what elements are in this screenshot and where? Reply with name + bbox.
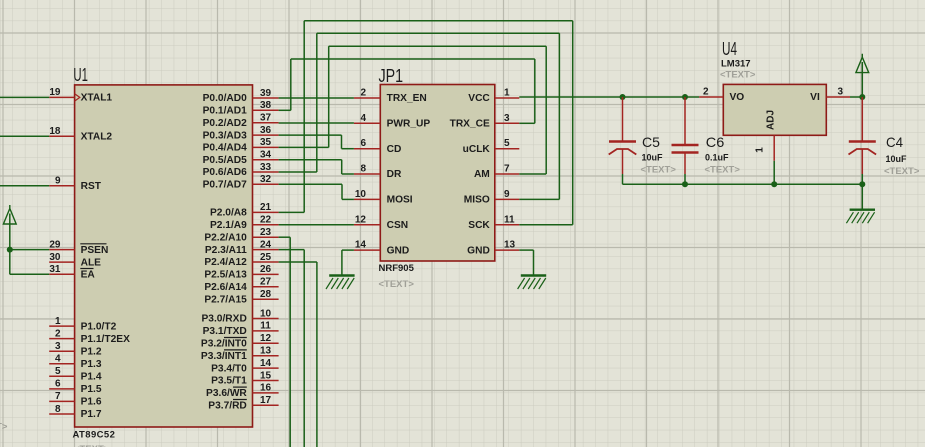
wire GND13 drop	[533, 250, 535, 275]
wire C4 junction to ground	[861, 184, 863, 209]
JP1 pin 3 TRX_CE stub	[495, 122, 520, 124]
svg-text:10uF: 10uF	[642, 153, 664, 163]
svg-text:ADJ: ADJ	[766, 110, 777, 130]
U1 pin 6 P1.5 stub	[49, 388, 74, 390]
wire P0.6 run	[279, 171, 317, 173]
svg-text:5: 5	[55, 366, 61, 377]
svg-text:4: 4	[360, 113, 366, 124]
svg-text:C6: C6	[706, 134, 725, 150]
U1 pin 37 P0.2/AD2 stub	[253, 122, 279, 124]
U1 PSEN overline	[80, 243, 106, 245]
svg-text:37: 37	[260, 113, 272, 124]
wire P0.3 drop to CD	[341, 135, 343, 149]
svg-text:U1: U1	[73, 65, 88, 85]
JP1 pin 7 AM stub	[495, 173, 520, 175]
svg-text:JP1: JP1	[379, 66, 404, 86]
wire P2.1 to CSN	[279, 224, 354, 226]
svg-text:<TEXT>: <TEXT>	[0, 422, 8, 433]
wire P0.7 run	[279, 183, 342, 185]
wire P2.0 riser	[303, 21, 305, 213]
wire P2.4 drop	[316, 262, 318, 447]
U4 pin 1 ADJ stub	[773, 135, 775, 161]
wire P0.2 to PWR_UP	[279, 122, 354, 124]
svg-text:11: 11	[260, 321, 271, 332]
svg-text:5: 5	[504, 138, 510, 149]
U1 pin 11 P3.1/TXD stub	[253, 330, 279, 332]
svg-text:P3.0/RXD: P3.0/RXD	[202, 314, 247, 325]
U1 pin 36 P0.3/AD3 stub	[253, 134, 279, 136]
wire MISO riser	[558, 33, 560, 199]
svg-text:7: 7	[504, 164, 510, 175]
svg-text:P3.4/T0: P3.4/T0	[211, 363, 247, 374]
U1 pin 34 P0.5/AD5 stub	[253, 159, 279, 161]
JP1 pin 14 GND stub	[354, 249, 380, 251]
svg-text:17: 17	[260, 395, 272, 406]
svg-text:21: 21	[260, 202, 272, 213]
svg-text:3: 3	[504, 113, 510, 124]
U1 pin 16 P3.6/WR stub	[253, 392, 279, 394]
svg-text:P0.5/AD5: P0.5/AD5	[203, 155, 248, 166]
svg-text:39: 39	[260, 88, 272, 99]
JP1 pin 10 MOSI stub	[354, 198, 380, 200]
junction dot ADJ	[771, 181, 777, 187]
svg-text:RST: RST	[81, 181, 102, 192]
wire MOSI jog	[342, 198, 354, 200]
svg-text:GND: GND	[387, 245, 410, 256]
svg-text:ALE: ALE	[81, 257, 102, 268]
power arrow VI right	[856, 54, 869, 73]
svg-text:2: 2	[360, 88, 366, 99]
junction dot C5 top	[620, 94, 626, 100]
svg-text:26: 26	[260, 264, 272, 275]
capacitor C4	[849, 140, 876, 142]
capacitor C5	[609, 140, 636, 142]
svg-text:AM: AM	[474, 169, 490, 180]
JP1 pin 4 PWR_UP stub	[354, 122, 380, 124]
svg-text:TRX_CE: TRX_CE	[450, 119, 490, 130]
svg-text:P1.4: P1.4	[81, 372, 102, 383]
wire XTAL1 net	[0, 96, 49, 98]
wire P0.5 drop to DR	[341, 160, 343, 174]
wire P0.3 run	[279, 134, 342, 136]
svg-text:P2.1/A9: P2.1/A9	[210, 220, 247, 231]
wire P0.4 run	[279, 146, 329, 148]
svg-text:12: 12	[355, 214, 367, 225]
U1 pin 5 P1.4 stub	[49, 375, 74, 377]
U1 RD overline	[233, 399, 247, 401]
svg-text:13: 13	[260, 346, 272, 357]
U1 INT1 overline	[224, 349, 247, 351]
U1 EA overline	[80, 268, 93, 270]
svg-text:XTAL2: XTAL2	[81, 131, 113, 142]
svg-text:1: 1	[504, 88, 510, 99]
ground JP1 left	[326, 276, 355, 290]
JP1 pin 13 GND stub	[495, 249, 520, 251]
wire CD jog	[342, 148, 354, 150]
wire top bus to TRX_CE	[291, 58, 535, 60]
U1 pin 15 P3.5/T1 stub	[253, 380, 279, 382]
power arrow VCC left	[3, 205, 16, 224]
U1 pin 28 P2.7/A15 stub	[253, 298, 279, 300]
wire XTAL2 net	[0, 135, 49, 137]
svg-text:GND: GND	[467, 245, 490, 256]
svg-text:P2.5/A13: P2.5/A13	[204, 270, 247, 281]
wire GND13 jog	[519, 249, 533, 251]
capacitor C6	[672, 144, 699, 146]
svg-text:3: 3	[55, 341, 61, 352]
svg-text:4: 4	[55, 354, 61, 365]
svg-text:6: 6	[55, 379, 61, 390]
U1 pin 1 P1.0/T2 stub	[49, 325, 74, 327]
svg-text:P1.1/T2EX: P1.1/T2EX	[81, 334, 130, 345]
svg-text:VO: VO	[730, 92, 745, 103]
svg-text:23: 23	[260, 227, 272, 238]
svg-text:PWR_UP: PWR_UP	[387, 119, 431, 130]
svg-text:10uF: 10uF	[886, 154, 908, 164]
U1 pin 12 P3.2/INT0 stub	[253, 342, 279, 344]
wire power stem right	[861, 62, 863, 97]
svg-text:P3.3/INT1: P3.3/INT1	[201, 351, 247, 362]
svg-text:6: 6	[360, 138, 366, 149]
wire TRX_CE riser	[534, 59, 536, 123]
svg-text:<TEXT>: <TEXT>	[641, 165, 677, 176]
wire down to EA	[9, 250, 11, 275]
U1 pin 10 P3.0/RXD stub	[253, 318, 279, 320]
wire C6 to rail	[684, 174, 686, 184]
svg-text:P1.0/T2: P1.0/T2	[81, 321, 117, 332]
U1 pin 22 P2.1/A9 stub	[253, 224, 279, 226]
svg-text:P0.3/AD3: P0.3/AD3	[203, 130, 248, 141]
JP1 pin 11 SCK stub	[495, 224, 520, 226]
svg-text:SCK: SCK	[468, 220, 490, 231]
svg-text:DR: DR	[387, 169, 402, 180]
wire bottom rail	[623, 183, 863, 185]
svg-text:P3.5/T1: P3.5/T1	[211, 376, 247, 387]
svg-text:NRF905: NRF905	[379, 263, 415, 274]
U1 pin 27 P2.6/A14 stub	[253, 286, 279, 288]
U1 pin 38 P0.1/AD1 stub	[253, 109, 279, 111]
wire SCK jog	[519, 224, 572, 226]
regulator U4 LM317 body	[723, 84, 826, 135]
svg-text:XTAL1: XTAL1	[81, 93, 113, 104]
wire P0.6 riser	[316, 33, 318, 172]
svg-text:28: 28	[260, 289, 272, 300]
svg-text:P0.1/AD1: P0.1/AD1	[203, 106, 248, 117]
wire top bus to MISO	[317, 32, 560, 34]
wire P2.0 run	[279, 211, 305, 213]
U1 pin 18 XTAL2 stub	[49, 135, 74, 137]
wire EA row	[10, 273, 49, 275]
svg-text:P0.6/AD6: P0.6/AD6	[203, 167, 248, 178]
svg-text:30: 30	[49, 252, 61, 263]
svg-text:<TEXT>: <TEXT>	[884, 166, 920, 177]
wire P0.4 riser	[328, 46, 330, 147]
U1 pin 31 EA stub	[49, 273, 74, 275]
svg-text:2: 2	[703, 87, 709, 98]
svg-text:P2.4/A12: P2.4/A12	[204, 257, 247, 268]
U1 pin 3 P1.2 stub	[49, 350, 74, 352]
svg-text:P2.2/A10: P2.2/A10	[204, 232, 247, 243]
wire P2.3 run	[279, 249, 305, 251]
U1 pin 7 P1.6 stub	[49, 400, 74, 402]
svg-text:CSN: CSN	[387, 220, 409, 231]
capacitor C6 bottom lead	[684, 153, 686, 175]
svg-text:P1.2: P1.2	[81, 346, 102, 357]
svg-text:P1.5: P1.5	[81, 384, 102, 395]
svg-text:<TEXT>: <TEXT>	[379, 279, 415, 290]
wire P0.1 stub	[279, 109, 291, 111]
U1 XTAL1 clock mark	[75, 94, 80, 101]
svg-text:27: 27	[260, 277, 272, 288]
U1 pin 39 P0.0/AD0 stub	[253, 97, 279, 99]
U1 pin 4 P1.3 stub	[49, 363, 74, 365]
JP1 pin 12 CSN stub	[354, 224, 380, 226]
svg-text:P3.7/RD: P3.7/RD	[208, 401, 247, 412]
U1 pin 21 P2.0/A8 stub	[253, 211, 279, 213]
svg-text:8: 8	[360, 164, 366, 175]
svg-text:C5: C5	[642, 134, 660, 150]
svg-text:1: 1	[755, 147, 766, 153]
svg-text:7: 7	[55, 391, 61, 402]
junction dot VI	[859, 94, 865, 100]
U1 pin 17 P3.7/RD stub	[253, 404, 279, 406]
svg-text:P2.0/A8: P2.0/A8	[210, 208, 247, 219]
wire P2.2 run	[279, 236, 291, 238]
U1 pin 24 P2.3/A11 stub	[253, 249, 279, 251]
wire PSEN row	[10, 249, 49, 251]
wire top bus to AM	[329, 45, 547, 47]
junction dot C4 bottom	[859, 181, 865, 187]
wire VI to junction	[850, 96, 862, 98]
wire P2.3 drop	[303, 250, 305, 447]
module JP1 NRF905 body	[380, 85, 495, 262]
svg-text:VI: VI	[810, 92, 820, 103]
svg-text:PSEN: PSEN	[81, 245, 109, 256]
svg-text:32: 32	[260, 174, 272, 185]
wire TRX_CE jog	[519, 122, 535, 124]
svg-text:0.1uF: 0.1uF	[705, 153, 729, 163]
U1 pin 19 XTAL1 stub	[49, 96, 74, 98]
capacitor C4 top lead	[861, 97, 863, 142]
svg-text:14: 14	[260, 358, 272, 369]
svg-text:MISO: MISO	[464, 195, 490, 206]
svg-text:34: 34	[260, 150, 272, 161]
U1 pin 29 PSEN stub	[49, 249, 74, 251]
svg-text:uCLK: uCLK	[463, 144, 491, 155]
svg-text:14: 14	[355, 240, 367, 251]
JP1 pin 2 TRX_EN stub	[354, 97, 380, 99]
svg-text:15: 15	[260, 370, 272, 381]
svg-text:C4: C4	[886, 134, 903, 150]
svg-text:9: 9	[55, 176, 61, 187]
svg-text:2: 2	[55, 328, 61, 339]
svg-text:P1.3: P1.3	[81, 359, 102, 370]
svg-text:P2.3/A11: P2.3/A11	[205, 245, 247, 256]
wire C5 to rail	[622, 174, 624, 184]
svg-text:18: 18	[49, 126, 61, 137]
wire GND14 jog	[342, 249, 354, 251]
svg-text:P1.7: P1.7	[81, 409, 102, 420]
wire MISO jog	[519, 198, 559, 200]
ground C4	[846, 210, 875, 224]
JP1 pin 8 DR stub	[354, 173, 380, 175]
U1 pin 2 P1.1/T2EX stub	[49, 338, 74, 340]
wire AM jog	[519, 173, 546, 175]
wire power stem left	[9, 214, 11, 250]
microcontroller U1 AT89C52 body	[75, 85, 253, 427]
svg-text:AT89C52: AT89C52	[73, 430, 116, 441]
wire SCK riser	[572, 21, 574, 225]
capacitor C4 bottom lead	[861, 149, 863, 174]
JP1 pin 6 CD stub	[354, 148, 380, 150]
svg-text:38: 38	[260, 100, 272, 111]
svg-text:8: 8	[55, 404, 61, 415]
svg-text:36: 36	[260, 125, 272, 136]
capacitor C5 bottom lead	[622, 149, 624, 174]
svg-text:VCC: VCC	[468, 93, 490, 104]
U1 pin 30 ALE stub	[49, 261, 74, 263]
svg-text:MOSI: MOSI	[387, 195, 413, 206]
U4 pin 2 VO stub	[699, 96, 723, 98]
U1 pin 26 P2.5/A13 stub	[253, 273, 279, 275]
svg-text:10: 10	[260, 308, 272, 319]
wire top bus to SCK	[304, 20, 573, 22]
svg-text:TRX_EN: TRX_EN	[387, 93, 427, 104]
wire P2.4 run	[279, 261, 317, 263]
wire DR jog	[342, 173, 354, 175]
svg-text:P0.2/AD2: P0.2/AD2	[203, 118, 248, 129]
svg-text:10: 10	[355, 189, 367, 200]
svg-text:3: 3	[838, 87, 844, 98]
svg-text:<TEXT>: <TEXT>	[705, 165, 741, 176]
svg-text:13: 13	[504, 240, 516, 251]
wire P0.5 run	[279, 159, 342, 161]
wire VCC rail	[519, 96, 699, 98]
svg-text:22: 22	[260, 215, 272, 226]
ground JP1 right	[518, 276, 547, 290]
junction dot C6 top	[682, 94, 688, 100]
svg-text:12: 12	[260, 333, 272, 344]
U1 pin 32 P0.7/AD7 stub	[253, 183, 279, 185]
svg-text:P3.2/INT0: P3.2/INT0	[201, 339, 247, 350]
capacitor C6 top lead	[684, 97, 686, 145]
svg-text:35: 35	[260, 137, 272, 148]
svg-text:33: 33	[260, 162, 272, 173]
wire P0.0 to TRX_EN	[279, 97, 354, 99]
svg-text:19: 19	[49, 87, 61, 98]
wire ADJ to rail	[773, 161, 775, 185]
junction dot PSEN	[7, 247, 13, 253]
svg-text:U4: U4	[722, 39, 737, 59]
svg-text:<TEXT>: <TEXT>	[720, 70, 756, 81]
svg-text:P1.6: P1.6	[81, 397, 102, 408]
svg-text:P3.6/WR: P3.6/WR	[206, 388, 247, 399]
svg-text:P0.0/AD0: P0.0/AD0	[203, 93, 248, 104]
svg-text:P2.7/A15: P2.7/A15	[204, 294, 247, 305]
svg-text:P3.1/TXD: P3.1/TXD	[203, 326, 247, 337]
JP1 pin 9 MISO stub	[495, 198, 520, 200]
U1 pin 35 P0.4/AD4 stub	[253, 146, 279, 148]
svg-text:1: 1	[55, 316, 61, 327]
U1 pin 33 P0.6/AD6 stub	[253, 171, 279, 173]
svg-text:P2.6/A14: P2.6/A14	[204, 282, 247, 293]
wire P0.1 riser	[290, 59, 292, 110]
svg-text:11: 11	[504, 214, 515, 225]
wire P0.7 drop to MOSI	[341, 184, 343, 199]
svg-text:CD: CD	[387, 144, 402, 155]
svg-text:25: 25	[260, 252, 272, 263]
U1 pin 25 P2.4/A12 stub	[253, 261, 279, 263]
svg-text:LM317: LM317	[721, 59, 751, 70]
svg-text:EA: EA	[81, 270, 96, 281]
junction dot C6 bottom	[682, 181, 688, 187]
wire GND14 drop	[341, 250, 343, 275]
svg-text:P0.4/AD4: P0.4/AD4	[203, 143, 248, 154]
U1 pin 9 RST stub	[49, 185, 74, 187]
JP1 pin 5 uCLK stub	[495, 148, 520, 150]
JP1 pin 1 VCC stub	[495, 97, 520, 99]
U1 pin 8 P1.7 stub	[49, 413, 74, 415]
svg-text:31: 31	[49, 264, 61, 275]
wire RST net	[0, 185, 49, 187]
svg-text:P0.7/AD7: P0.7/AD7	[203, 180, 248, 191]
svg-text:9: 9	[504, 189, 510, 200]
svg-text:16: 16	[260, 383, 272, 394]
capacitor C5 top lead	[622, 97, 624, 142]
U1 pin 13 P3.3/INT1 stub	[253, 355, 279, 357]
U1 pin 23 P2.2/A10 stub	[253, 236, 279, 238]
U1 WR overline	[233, 386, 247, 388]
U4 pin 3 VI stub	[826, 96, 850, 98]
svg-text:29: 29	[49, 239, 61, 250]
wire C4 to rail	[861, 174, 863, 184]
wire AM riser	[545, 46, 547, 174]
wire P2.2 drop	[289, 237, 291, 447]
U1 pin 14 P3.4/T0 stub	[253, 367, 279, 369]
U1 INT0 overline	[224, 337, 247, 339]
svg-text:24: 24	[260, 239, 272, 250]
